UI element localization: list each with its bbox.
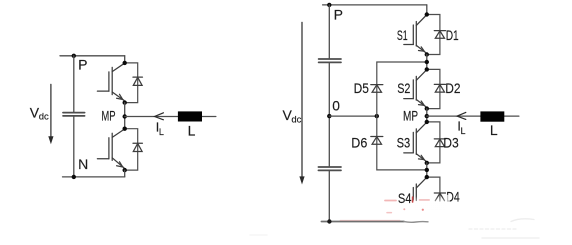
svg-text:P: P bbox=[334, 6, 343, 22]
node Q2 emitter dot bbox=[123, 168, 127, 172]
node S3 collector dot bbox=[425, 120, 429, 124]
node S3 emitter dot bbox=[425, 161, 429, 165]
node MP dot bbox=[123, 114, 127, 118]
diode of Q1 bbox=[133, 77, 142, 85]
wire top rail left bbox=[60, 55, 125, 57]
inductor L body bbox=[480, 111, 504, 121]
wire S2 emitter to S3 collector bbox=[426, 109, 428, 122]
wire left rail segment 1 bbox=[328, 5, 330, 59]
watermark remnant pink streak right bbox=[420, 199, 430, 201]
fade patch over D4 left edge bbox=[445, 195, 450, 204]
svg-text:L: L bbox=[159, 127, 164, 137]
wire D3 branch bbox=[427, 122, 440, 163]
transistor Q2 (lower IGBT) bbox=[97, 129, 124, 168]
node D6 junction dot bbox=[425, 168, 429, 172]
wire Q2 freewheel branch bbox=[125, 129, 138, 170]
node S1 emitter dot bbox=[425, 52, 429, 56]
wire S1 emitter to S2 collector bbox=[426, 55, 428, 70]
node P dot bbox=[327, 3, 331, 7]
node S1 collector dot bbox=[425, 12, 429, 16]
wire bottom rail bbox=[63, 176, 125, 178]
wire left rail upper segment bbox=[73, 56, 75, 112]
svg-text:dc: dc bbox=[39, 112, 49, 123]
transistor Q1 (upper IGBT) bbox=[97, 63, 124, 100]
svg-text:D2: D2 bbox=[445, 81, 460, 96]
wire Q2 emitter to bottom rail bbox=[124, 170, 126, 177]
svg-text:L: L bbox=[461, 126, 466, 136]
svg-text:D3: D3 bbox=[443, 135, 459, 150]
arrow IL (open chevron) bbox=[457, 112, 466, 119]
diode D5 bbox=[371, 85, 383, 93]
wire left rail segment 3 bbox=[328, 171, 330, 221]
node MP dot bbox=[425, 114, 429, 118]
watermark remnant pink tinge on rail bbox=[340, 219, 400, 221]
svg-text:D6: D6 bbox=[351, 135, 367, 150]
wire D5 clamp branch bbox=[377, 62, 427, 116]
wire top rail corner down to Q1 collector bbox=[124, 56, 126, 63]
watermark remnant red tick bbox=[412, 197, 414, 202]
node clamp junction dot bbox=[375, 114, 379, 118]
diode D1 bbox=[434, 31, 445, 39]
svg-text:L: L bbox=[490, 122, 498, 138]
watermark remnant faint grey smudges bottom right bbox=[250, 219, 539, 238]
wire Q1 freewheel branch bbox=[125, 63, 138, 103]
node S2 collector dot bbox=[425, 67, 429, 71]
watermark remnant pink dots bbox=[403, 208, 405, 210]
wire S3 emitter to S4 collector bbox=[426, 163, 428, 177]
diode D3 bbox=[434, 139, 445, 147]
wire left rail segment 2 bbox=[328, 63, 330, 166]
inductor L body bbox=[178, 111, 202, 121]
wire output to inductor bbox=[125, 116, 216, 118]
svg-text:P: P bbox=[78, 57, 87, 73]
wire D6 clamp branch bbox=[377, 116, 427, 170]
Vdc arrow bbox=[50, 84, 52, 137]
node Q1 emitter dot bbox=[123, 100, 127, 104]
watermark remnant pink streak left bbox=[385, 200, 396, 202]
wire output to inductor bbox=[427, 115, 519, 117]
capacitor C1 plates bbox=[319, 58, 341, 60]
node bottom rail dot bbox=[327, 219, 331, 223]
svg-text:N: N bbox=[78, 156, 88, 172]
svg-text:S2: S2 bbox=[397, 81, 410, 96]
arrow IL (open chevron) bbox=[155, 113, 164, 120]
wire left rail lower segment bbox=[73, 117, 75, 177]
node N dot bbox=[72, 175, 76, 179]
svg-text:S3: S3 bbox=[397, 135, 411, 150]
svg-text:S4: S4 bbox=[398, 191, 412, 206]
diode D4 bbox=[434, 193, 445, 201]
svg-text:0: 0 bbox=[332, 99, 340, 114]
capacitor C2 plates bbox=[318, 166, 341, 168]
transistor S3 bbox=[404, 122, 427, 161]
wire D4 branch (partially faded) bbox=[427, 177, 440, 201]
node D5 junction dot bbox=[425, 60, 429, 64]
node P dot bbox=[72, 54, 76, 58]
node S2 emitter dot bbox=[425, 106, 429, 110]
diode D6 bbox=[371, 137, 383, 145]
svg-text:dc: dc bbox=[291, 114, 301, 125]
wire top rail bbox=[323, 4, 427, 6]
svg-text:MP: MP bbox=[101, 108, 115, 123]
wire D1 branch bbox=[427, 15, 440, 55]
transistor S2 bbox=[404, 70, 427, 107]
transistor S4 (partially faded) bbox=[413, 178, 426, 201]
wire node 0 to clamp branch bbox=[329, 115, 377, 117]
svg-text:L: L bbox=[188, 123, 196, 139]
node 0 dot bbox=[327, 114, 331, 118]
Vdc arrow bbox=[301, 22, 303, 177]
node Q2 collector dot bbox=[123, 127, 127, 131]
capacitor C plates bbox=[63, 112, 85, 114]
svg-text:D5: D5 bbox=[354, 81, 369, 96]
diode of Q2 bbox=[133, 143, 142, 151]
transistor S1 bbox=[404, 15, 427, 53]
svg-text:MP: MP bbox=[403, 108, 418, 123]
node S4 collector dot bbox=[425, 175, 429, 179]
svg-text:S1: S1 bbox=[397, 28, 408, 43]
node Q1 collector dot bbox=[123, 61, 127, 65]
svg-text:D1: D1 bbox=[446, 28, 459, 43]
diode D2 bbox=[434, 84, 445, 92]
wire D2 branch bbox=[427, 69, 440, 108]
wire bottom rail (faded grey) bbox=[321, 221, 404, 223]
wire MP vertical segment bbox=[124, 103, 126, 129]
wire top rail corner down to S1 bbox=[426, 5, 428, 15]
